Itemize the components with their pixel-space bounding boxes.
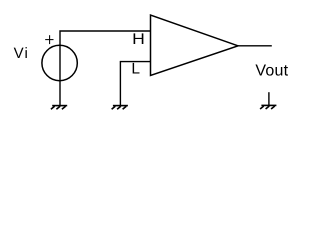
svg-text:H: H <box>132 31 145 48</box>
ground reference symbol <box>260 105 276 109</box>
svg-text:Vi: Vi <box>14 45 29 62</box>
wire through source to ground <box>59 45 61 106</box>
wire output <box>238 45 272 47</box>
ground reference stem near Vout <box>268 92 270 105</box>
ground at L input <box>112 106 128 110</box>
svg-text:L: L <box>131 60 140 77</box>
voltage source V1 <box>42 45 77 80</box>
svg-text:Vout: Vout <box>255 63 288 80</box>
ground under source <box>51 106 67 110</box>
polarity plus sign <box>45 35 53 44</box>
wire L input to ground <box>120 62 150 106</box>
op-amp U1 triangle <box>151 15 239 76</box>
wire top (source + to op-amp H input) <box>60 31 151 45</box>
